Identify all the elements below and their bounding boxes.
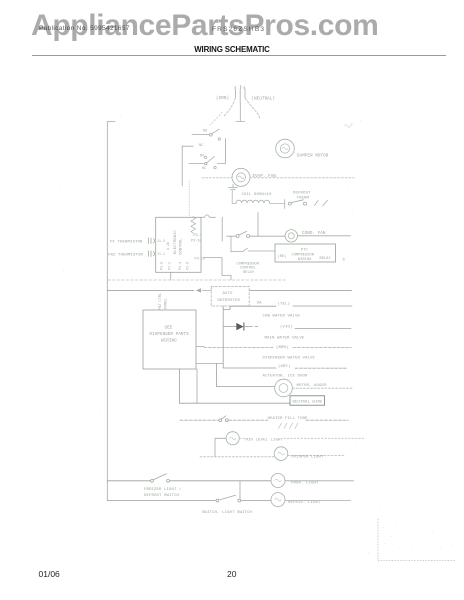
wire relay coil branch xyxy=(231,236,242,252)
main horizontal bus xyxy=(107,289,194,291)
wire fresh food light row xyxy=(107,480,271,482)
wire plug neutral drop xyxy=(236,103,244,121)
wire fresh food light right xyxy=(285,480,354,482)
wire node vertical P3-1 xyxy=(221,217,223,241)
svg-text:DEFROST SWITCH: DEFROST SWITCH xyxy=(144,494,180,498)
svg-text:RELAY: RELAY xyxy=(320,257,332,261)
svg-text:(GRN): (GRN) xyxy=(216,96,229,101)
wire main valve L2 xyxy=(295,327,351,329)
svg-text:COIL 600Ω±10: COIL 600Ω±10 xyxy=(242,193,273,197)
wire cube valve L1 xyxy=(293,305,352,307)
thermal fuse F1 (vertical zigzag) xyxy=(191,217,196,234)
svg-text:COND. FAN: COND. FAN xyxy=(302,232,326,236)
door switch SW1 contacts xyxy=(212,129,219,134)
svg-text:J1-3: J1-3 xyxy=(157,239,165,243)
wire neutral drop A xyxy=(179,369,181,403)
wire switch junction vertical xyxy=(218,139,226,164)
svg-text:AUTO: AUTO xyxy=(223,292,234,296)
electronic control U1 box xyxy=(156,217,201,272)
PTC compressor relay U2 box xyxy=(275,244,336,262)
svg-text:THERM: THERM xyxy=(297,196,310,200)
svg-text:NC: NC xyxy=(199,144,203,148)
svg-text:3A: 3A xyxy=(257,302,263,306)
neutral wire label box xyxy=(290,396,325,405)
wire auger right dashed xyxy=(293,387,353,389)
neutral dashed bus xyxy=(108,279,286,281)
wire coil to defrost thermostat xyxy=(232,202,284,204)
noise squiggle xyxy=(345,124,353,128)
svg-text:DEFROSTER: DEFROSTER xyxy=(218,299,241,303)
svg-text:COMPRESSOR: COMPRESSOR xyxy=(292,254,315,258)
door switch SW1 common wire xyxy=(192,134,209,136)
svg-text:P2-9: P2-9 xyxy=(186,262,190,270)
arrowhead node A xyxy=(196,288,201,292)
svg-text:WIRING: WIRING xyxy=(298,258,312,262)
footer date xyxy=(39,569,60,579)
svg-text:PANEL: PANEL xyxy=(165,298,169,309)
refrigerator light switch S5 xyxy=(216,499,219,502)
heater fill tube switch contacts xyxy=(219,419,222,422)
wire neutral drop B xyxy=(196,369,198,403)
svg-text:(YEL): (YEL) xyxy=(278,302,291,307)
wire dispenser box stub lower xyxy=(196,363,223,365)
svg-text:FF THERMISTOR: FF THERMISTOR xyxy=(110,241,143,245)
svg-text:(BRN): (BRN) xyxy=(276,345,289,350)
svg-text:SWITCH, LIGHT SWITCH: SWITCH, LIGHT SWITCH xyxy=(202,511,253,515)
wire control box bottom drop xyxy=(170,272,172,280)
wire refrigerator light row xyxy=(107,500,271,502)
wire defrost thermostat out xyxy=(315,200,328,206)
wire plug left lead lower xyxy=(210,112,222,125)
damper motor M1 xyxy=(276,139,295,158)
freezer light defrost switch S4 xyxy=(151,479,154,482)
svg-text:FREEZER LIGHT /: FREEZER LIGHT / xyxy=(144,487,182,492)
wire switch feed vertical xyxy=(182,146,193,186)
crisper light LP2 xyxy=(274,447,288,461)
svg-text:1 2A: 1 2A xyxy=(166,242,170,250)
svg-text:NC: NC xyxy=(202,167,206,171)
svg-text:HEATER FILL TUBE: HEATER FILL TUBE xyxy=(268,417,309,421)
relay switch S3 xyxy=(242,248,248,252)
wire auger feed xyxy=(217,364,275,387)
mid level light LP1 xyxy=(226,432,239,445)
watermark xyxy=(31,9,378,43)
wire mid level light right dashed xyxy=(240,437,366,439)
svg-text:P3-10: P3-10 xyxy=(191,240,202,244)
wire plug left lead xyxy=(224,98,235,116)
svg-text:MOTOR, AUGER: MOTOR, AUGER xyxy=(297,384,328,388)
diode D1 xyxy=(236,323,243,330)
svg-text:NO: NO xyxy=(203,130,207,134)
wire P3-12 run xyxy=(204,258,232,280)
fresh food light LP3 xyxy=(271,474,285,488)
corner registration mark xyxy=(378,519,455,561)
svg-text:PTC: PTC xyxy=(301,249,308,253)
svg-text:DISPENSER WATER VALVE: DISPENSER WATER VALVE xyxy=(263,356,316,360)
wire diode out xyxy=(244,326,258,328)
svg-text:DISPENSER PARTS: DISPENSER PARTS xyxy=(150,333,190,337)
wire actuator L4 xyxy=(295,367,347,369)
wire condenser fan right xyxy=(298,235,351,237)
svg-text:P3-1: P3-1 xyxy=(194,234,203,238)
left rail wire (hot bus) xyxy=(107,122,115,501)
wire control feed vertical (dotted) xyxy=(188,181,190,217)
ground G1 under evap fan xyxy=(229,185,238,190)
defrost thermostat S1 xyxy=(284,200,286,209)
defrost heater coil HTR1 xyxy=(236,200,270,203)
svg-text:P2-1: P2-1 xyxy=(168,262,172,270)
header model number xyxy=(212,26,265,33)
wire dispenser box stub upper xyxy=(196,346,204,348)
svg-text:CONTROL: CONTROL xyxy=(180,238,184,255)
header rule xyxy=(32,55,446,56)
wire neutral run xyxy=(180,402,291,404)
wire evap fan row right xyxy=(250,177,354,179)
wire evap fan row left xyxy=(202,177,232,179)
header publication number xyxy=(39,25,130,32)
power plug P1 prongs xyxy=(235,86,245,104)
wire to PTC relay xyxy=(248,250,275,252)
wire ground to defrost coil xyxy=(231,191,233,204)
svg-text:(RD): (RD) xyxy=(278,254,287,259)
wire dispenser valve L3 xyxy=(204,347,352,349)
svg-text:MID LEVEL LIGHT: MID LEVEL LIGHT xyxy=(246,439,284,443)
wire refrigerator light right xyxy=(285,500,351,502)
svg-text:MAIN WATER VALVE: MAIN WATER VALVE xyxy=(265,337,306,341)
svg-text:NEUTRAL WIRE: NEUTRAL WIRE xyxy=(293,401,324,405)
svg-text:J1-1: J1-1 xyxy=(157,252,165,256)
main horizontal bus right segment xyxy=(249,289,351,291)
svg-text:DEFROST: DEFROST xyxy=(293,192,311,196)
wire crisper light left dashed xyxy=(200,456,274,458)
svg-text:REFRIG. LIGHT: REFRIG. LIGHT xyxy=(288,501,321,505)
svg-text:ELECTRONIC: ELECTRONIC xyxy=(174,230,178,254)
FF thermistor RT1 connector xyxy=(149,238,155,244)
footer page number xyxy=(227,569,236,579)
door switch SW2 common wire xyxy=(189,163,204,165)
svg-text:P1-8: P1-8 xyxy=(160,262,164,270)
wire to condenser fan xyxy=(250,235,286,237)
wire actuator branch xyxy=(223,367,276,369)
page title xyxy=(0,45,464,54)
wire mid level light feed xyxy=(215,438,226,457)
svg-text:NO: NO xyxy=(200,155,204,159)
auto defroster box xyxy=(211,286,249,306)
svg-text:DAMPER MOTOR: DAMPER MOTOR xyxy=(297,155,329,159)
compressor run switch S2 xyxy=(227,235,237,237)
svg-text:CAB WATER VALVE: CAB WATER VALVE xyxy=(263,315,301,319)
svg-text:P1-4: P1-4 xyxy=(178,262,182,270)
wire crisper light right dashed xyxy=(288,455,345,457)
svg-text:FRSH. LIGHT: FRSH. LIGHT xyxy=(291,482,319,486)
svg-text:S: S xyxy=(343,259,346,263)
dispenser parts box xyxy=(143,310,196,369)
svg-text:EVAP. FAN: EVAP. FAN xyxy=(253,175,277,179)
FRZ thermistor RT2 connector xyxy=(149,251,155,257)
svg-text:ACTUATOR, ICE DOOR: ACTUATOR, ICE DOOR xyxy=(263,375,309,379)
wire valve rail vertical xyxy=(222,306,224,368)
svg-text:(NEUTRAL): (NEUTRAL) xyxy=(252,97,276,102)
wire heater fill tube run xyxy=(180,419,348,421)
svg-text:FRZ THERMISTOR: FRZ THERMISTOR xyxy=(108,254,144,258)
wire condenser branch vertical xyxy=(257,213,259,237)
wire plug right lead xyxy=(245,98,260,119)
wire cube valve branch xyxy=(223,306,276,309)
svg-text:CRISPER LIGHT: CRISPER LIGHT xyxy=(291,456,324,460)
refrigerator light LP4 xyxy=(271,493,285,507)
evaporator fan motor M2 xyxy=(232,168,250,186)
svg-text:(GRY): (GRY) xyxy=(278,364,291,369)
condenser fan motor M3 xyxy=(285,230,297,242)
svg-text:RELAY: RELAY xyxy=(243,271,255,275)
svg-text:(VIO): (VIO) xyxy=(280,325,293,330)
wire diode branch xyxy=(223,326,236,328)
heater fill tube element hatches xyxy=(279,423,299,429)
door switch SW2 contacts xyxy=(207,157,215,163)
svg-text:SEE: SEE xyxy=(165,327,173,331)
svg-text:WIRING: WIRING xyxy=(161,340,177,344)
svg-text:FRZ CTRL: FRZ CTRL xyxy=(159,293,163,310)
wire control box top to node xyxy=(202,215,216,217)
scanner speckle noise xyxy=(60,70,453,553)
svg-text:P3-12: P3-12 xyxy=(195,258,206,262)
auger motor M4 xyxy=(275,379,293,397)
